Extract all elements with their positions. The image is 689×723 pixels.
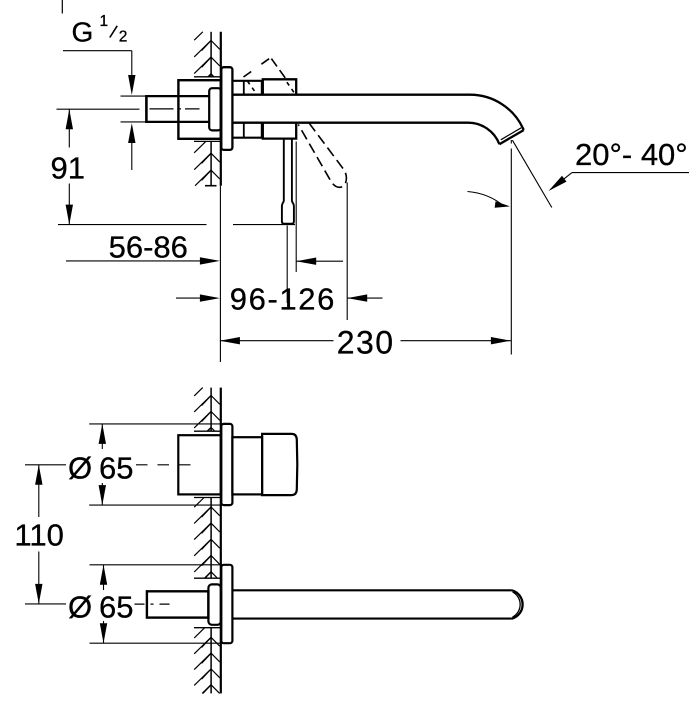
- concealed body box: [178, 80, 220, 139]
- pipe centerline (dash-dot): [150, 108, 200, 110]
- spout tube rounded end cap: [512, 590, 523, 618]
- hatch stem end cap: [205, 185, 217, 187]
- spout tube top edge with outlet curve: [232, 95, 523, 130]
- spout tip extension line: [510, 140, 512, 144]
- spout base ring top edge: [232, 80, 262, 82]
- dashed lever tip extension line: [346, 183, 348, 321]
- svg-text:110: 110: [14, 518, 63, 553]
- dim 96-126 line with arrows: [176, 297, 202, 299]
- spout wall plate: [221, 565, 232, 643]
- G 1/2 lower arrow: [131, 140, 133, 170]
- G 1/2 leader underline: [63, 50, 132, 52]
- dim 20-40 leader line: [572, 172, 689, 174]
- spout outlet face: [499, 130, 523, 144]
- handle wall plate: [221, 424, 232, 505]
- dim dia65 lower extension lines: [90, 564, 221, 566]
- svg-text:96-126: 96-126: [230, 281, 336, 316]
- spout centerline dash-dot: [135, 603, 174, 605]
- wall hatch band 1 (bottom drawing): [210, 388, 212, 432]
- wall face extension line down to 230 dimension: [219, 186, 221, 362]
- lever handle (down position): [282, 139, 294, 224]
- lever bottom reference line: [58, 224, 207, 226]
- wall recess cap line upper: [194, 76, 221, 78]
- handle grip knob: [262, 434, 297, 495]
- lever dashed up position edge A: [244, 57, 272, 77]
- recess cap lines lower unit: [194, 577, 221, 579]
- wall plate escutcheon (side view): [221, 67, 232, 150]
- centerline extension for dim 91: [57, 108, 140, 110]
- G 1/2 leader drop with arrow: [131, 51, 133, 80]
- svg-text:1: 1: [100, 13, 109, 30]
- lever dashed up position edge C: [247, 81, 255, 93]
- inlet pipe end cap: [145, 95, 148, 123]
- svg-text:65: 65: [99, 451, 133, 486]
- svg-text:Ø: Ø: [68, 451, 92, 486]
- recess cap lines upper unit: [194, 430, 221, 432]
- spout base ring bottom edge: [232, 137, 262, 139]
- wall line (top view): [220, 32, 222, 186]
- cartridge insert through wall (rounded): [209, 88, 221, 130]
- dim dia65 upper extension lines: [89, 423, 220, 425]
- dim 230 line with arrows: [220, 340, 334, 342]
- spout outlet aerator line: [501, 128, 521, 140]
- wall hatch band lower (top view): [210, 141, 212, 185]
- spout tube end inner arc: [513, 592, 521, 617]
- wall hatch band 2 (bottom drawing): [210, 498, 212, 579]
- handle centerline dash-dot: [136, 464, 193, 466]
- wall hatch band upper (top view): [210, 32, 212, 77]
- svg-text:20°- 40°: 20°- 40°: [575, 137, 688, 172]
- collar edge extension line: [295, 142, 297, 273]
- lever center extension line: [286, 226, 288, 304]
- wall line (front view): [220, 388, 222, 694]
- handle concealed body box: [178, 435, 221, 494]
- spout insert through wall (rounded): [208, 584, 221, 624]
- pipe edge extension stubs: [121, 95, 147, 97]
- svg-text:Ø: Ø: [68, 590, 92, 625]
- handle base: [232, 437, 262, 494]
- lever dashed up position edge B: [271, 59, 285, 79]
- svg-text:2: 2: [119, 28, 128, 45]
- wall recess cap line lower: [194, 140, 221, 142]
- svg-text:91: 91: [51, 151, 85, 186]
- dim dia65 lower line with arrows: [103, 565, 105, 590]
- spout tube bottom edge with outlet curve: [232, 123, 499, 145]
- svg-text:230: 230: [337, 324, 395, 360]
- dim 56-86 line with arrows: [66, 260, 202, 262]
- ring right edge: [261, 81, 264, 95]
- spout angle direction line: [512, 140, 551, 207]
- angle rotation arc arrow: [468, 192, 505, 207]
- ring divider: [243, 81, 245, 95]
- spout tube front view: [232, 589, 512, 591]
- wall hatch band 3 (bottom drawing): [210, 628, 212, 694]
- dim dia65 upper line with arrows: [101, 424, 103, 449]
- lever dashed 40deg position outline: [298, 123, 346, 188]
- dim 110 reference stubs: [25, 464, 66, 466]
- dim 110 line with arrows: [38, 465, 40, 517]
- inlet pipe G1/2 top edge: [146, 95, 209, 97]
- stray crop mark top left: [61, 0, 63, 14]
- svg-text:65: 65: [99, 590, 133, 625]
- svg-text:56-86: 56-86: [109, 229, 188, 264]
- dim 91 vertical line: [68, 109, 70, 147]
- lever collar outline: [263, 79, 296, 94]
- svg-text:G: G: [72, 16, 94, 47]
- inlet pipe G1/2 bottom edge: [146, 121, 209, 123]
- spout concealed supply box: [147, 591, 209, 617]
- lever dashed up position edge D: [287, 82, 295, 93]
